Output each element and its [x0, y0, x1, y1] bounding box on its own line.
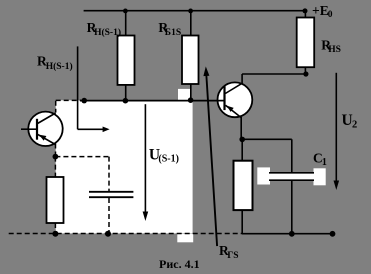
- node: RН(S-1) top junction: [123, 9, 128, 14]
- wire: dashed lead to emitter resistor: [54, 157, 56, 177]
- U2 voltage arrow: [334, 73, 340, 190]
- label RБ1S: [158, 20, 181, 38]
- node: bottom rail capacitor junction: [105, 231, 111, 237]
- node: RБ1S top junction: [188, 9, 193, 14]
- capacitor C1 left plate: [257, 167, 270, 184]
- node: RБ1S bottom junction: [188, 97, 194, 103]
- wire: dashed emitter junction to capacitor branch: [55, 156, 109, 158]
- label RН(S-1) left: [37, 54, 73, 72]
- wire: bottom rail dashed part: [9, 233, 242, 235]
- node: bottom rail right end: [330, 231, 336, 237]
- label +E0: [312, 3, 333, 20]
- transistor Q2 base bar: [223, 86, 225, 110]
- label C1: [313, 151, 327, 169]
- transistor Q1 base lead: [21, 128, 37, 130]
- transistor Q1 base bar: [36, 119, 38, 140]
- label RГS: [219, 243, 239, 261]
- label RНS: [321, 37, 341, 55]
- resistor R4 emitter resistor of stage S: [234, 139, 253, 233]
- node: bottom rail at C branch: [289, 231, 295, 237]
- label RН(S-1) at resistor R1: [87, 20, 121, 38]
- transistor Q1 collector: [38, 113, 56, 124]
- svg-text:НS: НS: [328, 45, 341, 55]
- wire: C1 branch vertical lower: [291, 181, 293, 234]
- node: Q1 emitter junction: [53, 154, 59, 160]
- resistor R2 RБ1S: [182, 11, 199, 101]
- node: RНS bottom junction: [303, 71, 308, 76]
- svg-text:Рис. 4.1: Рис. 4.1: [159, 257, 200, 271]
- svg-text:0: 0: [328, 10, 333, 20]
- wire: base rail into Q2 base: [217, 100, 225, 102]
- transistor Q2 emitter with arrow (PNP): [226, 105, 242, 139]
- node: +E0 terminal: [303, 8, 308, 13]
- label U2: [342, 112, 358, 130]
- resistor R5 emitter resistor of (S-1) stage: [47, 177, 64, 223]
- capacitor C1 right plate: [314, 168, 326, 185]
- node: box edge on base rail: [81, 98, 87, 104]
- U(S-1) voltage arrow: [143, 104, 149, 221]
- node: bottom rail left junction: [52, 231, 58, 237]
- wire: base rail (solid part): [80, 100, 225, 102]
- pointer line of left RН(S-1) label: [77, 46, 79, 129]
- svg-text:2: 2: [352, 120, 357, 131]
- transistor Q2 body: [218, 82, 253, 117]
- resistor R3 RНS: [297, 11, 315, 74]
- transistor Q1 emitter with arrow (PNP): [38, 134, 56, 144]
- resistor R1 RН(S-1): [118, 11, 135, 101]
- wire: C1 branch vertical upper: [291, 139, 293, 172]
- svg-text:(S-1): (S-1): [158, 154, 179, 165]
- wire: +E0 supply rail: [84, 10, 305, 12]
- svg-text:Н(S-1): Н(S-1): [46, 61, 73, 72]
- svg-text:ГS: ГS: [227, 251, 238, 261]
- white mask patch below bottom rail: [177, 234, 193, 243]
- label U(S-1): [149, 146, 179, 164]
- node: Q2 emitter junction: [239, 137, 245, 143]
- white mask patch at RБ1S lower lead: [178, 89, 191, 101]
- capacitor plates (emitter bypass): [89, 192, 133, 197]
- node: RН(S-1) bottom junction: [123, 98, 129, 104]
- wire: bottom rail solid part: [242, 233, 333, 235]
- wire: dashed top edge of (S-1) box: [56, 99, 81, 101]
- signal direction arrow into (S-1) box: [78, 127, 110, 133]
- RГS pointer arrow: [203, 66, 217, 246]
- wire: Q2 collector load wire: [242, 73, 306, 75]
- capacitor C1 body bar: [269, 172, 314, 180]
- svg-text:Н(S-1): Н(S-1): [94, 27, 121, 38]
- wire: dashed Q1 collector to box corner: [55, 101, 57, 113]
- wire: dashed capacitor bottom lead: [108, 198, 110, 233]
- wire: Q2 emitter junction to C1 branch: [242, 138, 292, 140]
- wire: dashed Q1 emitter down link: [55, 144, 57, 157]
- transistor Q2 collector: [225, 74, 242, 94]
- svg-text:1: 1: [322, 157, 327, 168]
- transistor Q1 body: [28, 112, 62, 146]
- svg-text:Б1S: Б1S: [165, 28, 181, 38]
- wire: dashed capacitor top lead: [108, 157, 110, 191]
- wire: dashed emitter resistor bottom lead: [54, 223, 56, 233]
- svg-text:+E: +E: [312, 3, 329, 18]
- stage (S-1) equivalent-source white box: [56, 100, 193, 233]
